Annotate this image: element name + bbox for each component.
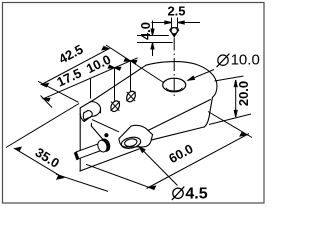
ext left oblique for 17.5 (41, 96, 53, 108)
ext right (208, 112, 252, 138)
sensing hole inner depth arc (166, 88, 183, 91)
ext lower (56, 174, 108, 191)
svg-text:10.0: 10.0 (231, 52, 260, 69)
svg-text:20.0: 20.0 (236, 81, 251, 106)
front face top edge left segment (92, 120, 119, 132)
technical drawing: proximity sensor isometric dimension diagram (0, 0, 267, 207)
lug hole D4.5 (120, 136, 141, 150)
dim D10.0 leader + text (217, 54, 230, 68)
detail lines (137, 35, 169, 37)
body front-bottom edge left (80, 149, 139, 171)
body rounded-end top arc (146, 62, 217, 98)
body front-top edge (148, 100, 211, 131)
centerline dash-dot (173, 38, 175, 100)
body back-top edge (91, 65, 147, 102)
svg-text:4.5: 4.5 (185, 185, 207, 202)
ext left (38, 81, 79, 102)
body bottom-right arc (205, 112, 210, 127)
ext top (215, 76, 244, 81)
sensing element teardrop (170, 28, 179, 31)
top hole 1 (109, 99, 121, 113)
vertical extension lines (90, 79, 92, 99)
border frame (3, 3, 265, 204)
ext left (from cable tip) (86, 164, 154, 189)
body right side edge (210, 97, 213, 112)
cable (74, 138, 111, 160)
body left vertical edge (79, 108, 81, 171)
sensing hole D10 on top (163, 78, 186, 92)
body left-end top edge to gland (91, 126, 103, 140)
ext bottom (209, 114, 251, 125)
mounting lug (119, 125, 153, 147)
dim D4.5 leader + text (172, 187, 184, 200)
ext right (106, 45, 164, 83)
top hole 2 (125, 90, 137, 104)
body front-bottom edge right (150, 127, 205, 140)
svg-text:2.5: 2.5 (167, 4, 185, 19)
svg-text:4.0: 4.0 (138, 22, 153, 40)
ext upper (long, to body corner) (6, 104, 79, 148)
mounting slot left end (80, 102, 100, 127)
LED dot (104, 133, 108, 137)
